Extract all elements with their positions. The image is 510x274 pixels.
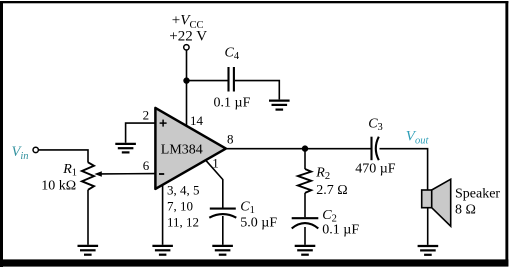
capacitor C1 polarized	[209, 209, 236, 218]
wire C4 to ground	[235, 81, 279, 100]
svg-text:7, 10: 7, 10	[167, 199, 193, 214]
resistor R2	[298, 169, 311, 193]
junction dot output node	[302, 145, 308, 151]
svg-text:+22 V: +22 V	[169, 28, 207, 44]
wire Vin to R1	[39, 150, 88, 163]
svg-text:2: 2	[143, 107, 150, 122]
svg-text:8: 8	[227, 132, 234, 147]
wire pin 1 to C1	[206, 160, 223, 208]
svg-text:14: 14	[190, 113, 204, 128]
speaker LS1 driver	[422, 190, 432, 208]
wire output pin 8	[226, 148, 371, 150]
op-amp U1 LM384 triangle	[155, 108, 226, 189]
wire C2 to ground	[304, 227, 306, 245]
ground C4	[269, 101, 290, 110]
wire R1 to ground	[87, 190, 89, 245]
svg-text:3, 4, 5: 3, 4, 5	[167, 183, 200, 198]
ground C2	[295, 246, 316, 255]
capacitor C3 polarized	[372, 137, 379, 161]
wire R2 to C2	[304, 193, 306, 217]
svg-text:Speaker: Speaker	[455, 186, 500, 201]
svg-text:1: 1	[212, 155, 219, 170]
ground op-amp pins	[152, 246, 173, 255]
wire VCC terminal to junction	[186, 50, 188, 80]
svg-text:470 µF: 470 µF	[355, 161, 396, 176]
ground pin2	[115, 144, 136, 153]
wire ground pins vertical	[162, 184, 164, 245]
wire pin 6 to wiper	[101, 173, 155, 175]
svg-text:6: 6	[143, 158, 150, 173]
wire pin 14 vertical	[186, 81, 188, 127]
wire C1 to ground	[222, 216, 224, 245]
op-amp plus input marker	[160, 120, 167, 127]
resistor R1 potentiometer body	[82, 162, 94, 190]
wire speaker to ground	[427, 208, 429, 245]
terminal Vin open circle	[33, 147, 38, 152]
speaker LS1 horn	[432, 179, 451, 226]
capacitor C4	[229, 67, 234, 92]
wire output node to R2	[304, 149, 306, 169]
svg-text:0.1 µF: 0.1 µF	[322, 223, 359, 238]
terminal VCC open circle	[184, 45, 189, 50]
svg-text:11, 12: 11, 12	[167, 215, 199, 230]
wire VCC node to C4	[187, 80, 228, 82]
ground R1	[78, 246, 99, 255]
svg-text:2.7 Ω: 2.7 Ω	[316, 183, 347, 198]
svg-text:10 kΩ: 10 kΩ	[41, 178, 76, 193]
ground speaker	[418, 246, 439, 255]
svg-text:8 Ω: 8 Ω	[455, 202, 476, 217]
wire pin 2 to ground	[126, 123, 156, 143]
svg-text:5.0 µF: 5.0 µF	[240, 216, 277, 231]
junction dot VCC node	[183, 77, 189, 83]
svg-text:0.1 µF: 0.1 µF	[214, 95, 251, 110]
wire C3 to Vout corner	[380, 149, 428, 190]
op-amp minus input marker	[159, 173, 164, 175]
capacitor C2 polarized	[292, 218, 319, 228]
potentiometer wiper arrow	[94, 171, 101, 177]
ground C1	[212, 246, 233, 255]
svg-text:LM384: LM384	[161, 143, 203, 158]
